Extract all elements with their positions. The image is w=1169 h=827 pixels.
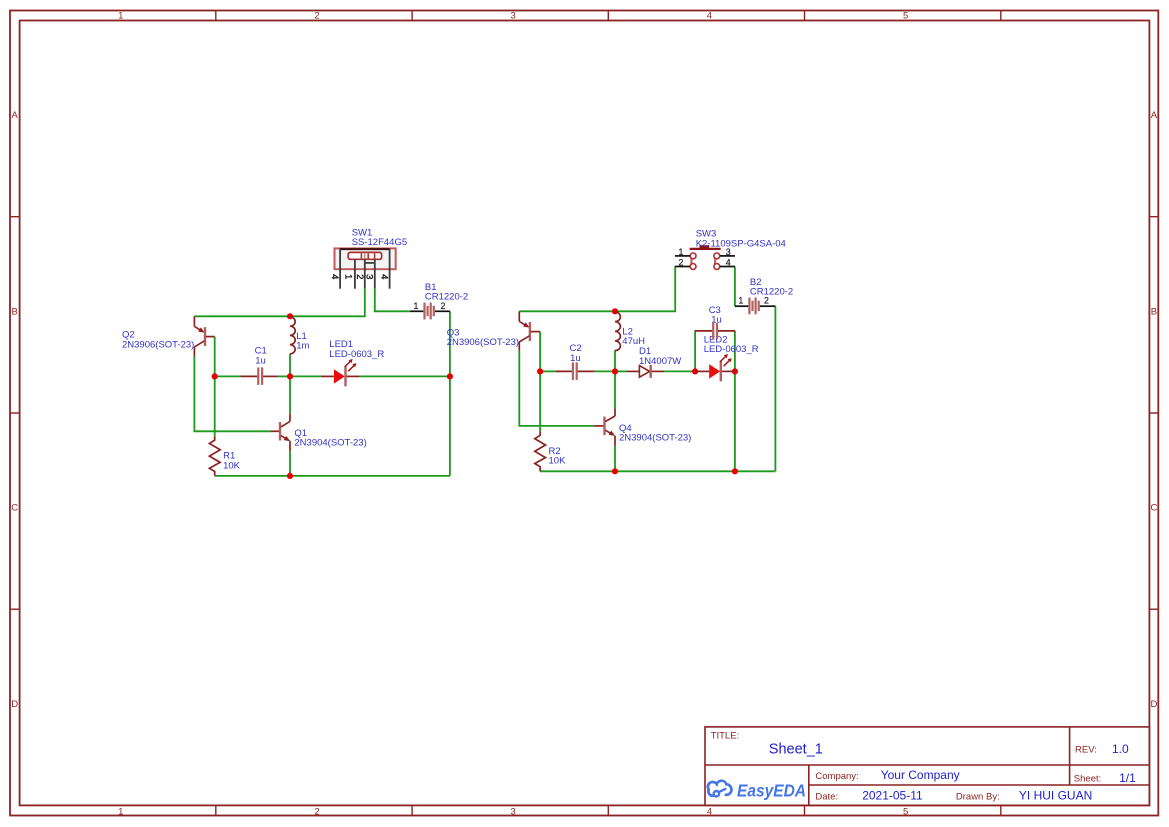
wire L1 bottom (289, 354, 291, 377)
wire D1 right to LED2 node (664, 370, 695, 372)
wire top rail left (194, 289, 364, 317)
wire Q2 base down (214, 337, 216, 377)
svg-text:3: 3 (511, 806, 516, 817)
battery B2 (735, 277, 793, 314)
transistor Q1 (270, 414, 366, 452)
svg-text:CR1220-2: CR1220-2 (425, 292, 468, 303)
svg-text:1N4007W: 1N4007W (639, 356, 681, 367)
svg-text:Drawn By:: Drawn By: (956, 791, 1000, 802)
svg-text:10K: 10K (549, 456, 567, 467)
wire Q4 collector up (614, 371, 616, 408)
wire B1 column down (449, 311, 451, 476)
switch SW1 (329, 227, 407, 288)
svg-text:Sheet:: Sheet: (1074, 774, 1101, 785)
svg-text:1u: 1u (711, 315, 722, 326)
transistor Q4 (594, 408, 691, 446)
node Q4 emitter / bottom rail (612, 468, 618, 474)
svg-text:1: 1 (738, 296, 743, 306)
wire Q3 base down (539, 332, 541, 372)
node C1 / L1 / LED1 / Q1 (287, 373, 293, 379)
svg-text:1m: 1m (296, 341, 309, 352)
svg-text:A: A (12, 110, 19, 121)
svg-text:C: C (11, 503, 18, 514)
wire B2 column down (774, 306, 776, 471)
svg-text:Your Company: Your Company (881, 768, 960, 782)
node LED1 / B1 column (447, 373, 453, 379)
svg-text:LED-0603_R: LED-0603_R (704, 344, 759, 355)
svg-text:2N3904(SOT-23): 2N3904(SOT-23) (619, 433, 691, 444)
wire Q2 collector to Q1 base (194, 356, 270, 431)
svg-text:C: C (1150, 503, 1157, 514)
svg-text:EasyEDA: EasyEDA (737, 781, 806, 801)
node C2 / L2 / D1 / Q4 (612, 368, 618, 374)
svg-text:2: 2 (679, 257, 684, 267)
wire bottom rail right (540, 470, 775, 472)
node LED2 / C3 right (732, 368, 738, 374)
switch SW3 (675, 229, 786, 270)
node Q1 emitter / bottom rail (287, 473, 293, 479)
node D1 / LED2 / C3 left (692, 368, 698, 374)
svg-text:1u: 1u (570, 353, 581, 364)
wire Q1 emitter down (289, 451, 291, 476)
svg-text:SS-12F44G5: SS-12F44G5 (352, 237, 407, 248)
svg-text:5: 5 (903, 11, 908, 22)
wire Q3 collector to Q4 base (519, 351, 594, 426)
title block frame (705, 727, 1149, 806)
svg-text:4: 4 (707, 806, 712, 817)
capacitor C3 (695, 305, 735, 339)
svg-text:1: 1 (343, 274, 354, 279)
EasyEDA logo (708, 781, 806, 801)
wire C3/LED2 right vertical to bottom rail (734, 331, 736, 471)
capacitor C1 (241, 346, 278, 385)
node Q3 base / C2 / R2 (537, 368, 543, 374)
transistor Q3 (447, 311, 540, 351)
svg-text:CR1220-2: CR1220-2 (750, 287, 793, 298)
svg-text:2: 2 (354, 274, 365, 279)
svg-text:3: 3 (364, 274, 375, 279)
svg-text:1u: 1u (255, 355, 266, 366)
title block texts (711, 731, 1136, 803)
svg-text:K2-1109SP-G4SA-04: K2-1109SP-G4SA-04 (696, 238, 786, 249)
node Q2 base / C1 / R1 (212, 373, 218, 379)
resistor R1 (209, 436, 240, 476)
wire C1 right to node (277, 375, 290, 377)
wire mid row C2 left (540, 370, 555, 372)
svg-text:A: A (1151, 110, 1158, 121)
wire LED1 left (290, 375, 321, 377)
svg-text:Date:: Date: (815, 791, 838, 802)
svg-text:4: 4 (378, 274, 389, 279)
svg-text:B: B (1151, 306, 1157, 317)
LED LED2 (695, 335, 759, 382)
svg-text:4: 4 (726, 257, 731, 267)
battery B1 (410, 282, 468, 319)
svg-text:2: 2 (314, 806, 319, 817)
resistor R2 (535, 431, 566, 471)
wire bottom rail left (215, 475, 450, 477)
diode D1 (627, 346, 682, 378)
wire SW3 pin4 to B2 pin1 (734, 267, 736, 307)
transistor Q2 (122, 316, 215, 356)
svg-text:LED-0603_R: LED-0603_R (329, 349, 384, 360)
svg-text:2N3904(SOT-23): 2N3904(SOT-23) (294, 438, 366, 449)
svg-text:2N3906(SOT-23): 2N3906(SOT-23) (447, 337, 519, 348)
wire Q4 emitter down (614, 446, 616, 471)
svg-text:3: 3 (511, 11, 516, 22)
svg-text:Sheet_1: Sheet_1 (769, 742, 823, 758)
wire C2 right to node (595, 370, 615, 372)
wire SW1 pin3 to B1 pin1 (375, 289, 410, 312)
svg-text:4: 4 (707, 11, 712, 22)
svg-text:1.0: 1.0 (1112, 742, 1129, 756)
wire Q1 collector up (289, 376, 291, 413)
svg-text:D: D (11, 699, 18, 710)
wire C3 left vertical (694, 331, 696, 372)
wire D1 left (615, 370, 627, 372)
svg-text:1: 1 (118, 806, 123, 817)
svg-text:4: 4 (329, 274, 340, 279)
node top rail / L2 (612, 308, 618, 314)
wire R2 column (539, 371, 541, 431)
svg-text:1: 1 (118, 11, 123, 22)
inductor L2 (615, 312, 645, 351)
capacitor C2 (555, 343, 594, 380)
wire mid row C1 left (215, 375, 241, 377)
svg-text:B: B (12, 306, 18, 317)
svg-text:2N3906(SOT-23): 2N3906(SOT-23) (122, 339, 194, 350)
svg-text:2: 2 (314, 11, 319, 22)
svg-text:Company:: Company: (815, 771, 858, 782)
svg-text:YI HUI GUAN: YI HUI GUAN (1019, 789, 1092, 803)
svg-text:2021-05-11: 2021-05-11 (862, 789, 923, 803)
svg-text:1: 1 (414, 301, 419, 311)
node LED2 column / bottom rail (732, 468, 738, 474)
node top rail / L1 (287, 313, 293, 319)
svg-text:REV:: REV: (1075, 745, 1097, 756)
svg-text:5: 5 (903, 806, 908, 817)
wire top rail right / SW3 pin2 (519, 267, 675, 312)
svg-text:10K: 10K (223, 460, 241, 471)
wire R1 column (214, 376, 216, 436)
svg-text:1: 1 (679, 247, 684, 257)
wire LED1 right to B1 column (360, 375, 450, 377)
inductor L1 (290, 317, 310, 354)
wire L2 bottom (614, 350, 616, 371)
LED LED1 (321, 339, 384, 386)
svg-text:1/1: 1/1 (1119, 771, 1136, 785)
svg-text:D: D (1150, 699, 1157, 710)
svg-text:TITLE:: TITLE: (711, 731, 740, 742)
